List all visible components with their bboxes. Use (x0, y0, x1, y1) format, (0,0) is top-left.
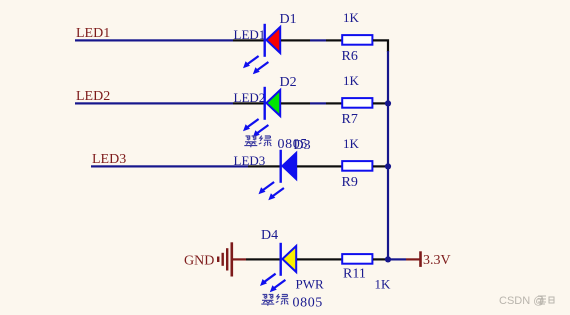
svg-text:LED1: LED1 (76, 26, 110, 41)
resistor R11 (342, 254, 372, 264)
svg-text:1K: 1K (343, 73, 360, 88)
wire to power port (389, 258, 406, 260)
comment 翠绿 (glyph approximations) (244, 136, 257, 147)
resistor R7 (342, 98, 372, 108)
LED D2 emission arrow 2 (253, 125, 269, 137)
LED D4 emission arrow 1 (260, 274, 276, 286)
wire net LED2 (75, 102, 233, 104)
svg-text:GND: GND (184, 254, 214, 269)
svg-text:1K: 1K (375, 277, 392, 292)
LED D3 emission arrow 2 (268, 188, 284, 200)
power port 3.3V bar (419, 251, 422, 267)
svg-text:R9: R9 (342, 175, 358, 190)
svg-text:R11: R11 (343, 267, 366, 282)
vertical bus wire (387, 51, 389, 260)
resistor R6 pin 2 wire + corner (373, 40, 388, 52)
LED D2 pin 2 wire (281, 102, 310, 104)
svg-text:0805: 0805 (293, 295, 323, 310)
LED D4 emission arrow 2 (270, 280, 286, 292)
svg-text:LED3: LED3 (234, 153, 266, 168)
wire net LED1 (75, 39, 233, 41)
LED D1 cathode bar (264, 24, 266, 57)
LED D4 triangle (282, 246, 296, 272)
ground symbol bars (217, 242, 233, 276)
LED D1 emission arrow 1 (243, 56, 259, 68)
ground stub wire (red) (233, 258, 246, 260)
LED D3 pin 1 wire (248, 165, 281, 167)
LED D2 cathode bar (264, 87, 266, 120)
svg-text:R7: R7 (342, 112, 358, 127)
svg-text:LED1: LED1 (234, 27, 266, 42)
resistor R9 pin 2 wire (373, 165, 388, 167)
wire (310, 102, 326, 104)
junction node (R11 / bus / 3.3V) (385, 256, 391, 262)
LED D4 cathode bar (280, 243, 282, 276)
junction node (R9 / bus) (385, 163, 391, 169)
svg-text:R6: R6 (342, 49, 358, 64)
comment 翠绿 (glyph approximations, D4) (261, 295, 274, 306)
LED D3 cathode bar (280, 150, 282, 183)
LED D1 triangle (266, 27, 280, 53)
LED D2 pin 1 wire (233, 102, 265, 104)
LED D4 pin 2 wire (297, 258, 342, 260)
svg-text:D1: D1 (280, 12, 297, 27)
LED D3 pin 2 wire (297, 165, 342, 167)
LED D4 pin 1 wire (246, 258, 281, 260)
resistor R6 (342, 35, 372, 45)
LED D1 pin 2 wire (281, 39, 310, 41)
resistor R11 pin 2 wire (373, 258, 388, 260)
resistor R6 pin 1 wire (326, 39, 342, 41)
wire (310, 39, 326, 41)
power port stub (red) (406, 258, 420, 260)
LED D2 emission arrow 1 (243, 119, 259, 131)
resistor R7 pin 2 wire (373, 102, 388, 104)
svg-text:D4: D4 (261, 228, 278, 243)
svg-text:LED3: LED3 (92, 152, 126, 167)
svg-text:PWR: PWR (296, 277, 325, 292)
resistor R7 pin 1 wire (326, 102, 342, 104)
svg-text:D2: D2 (280, 75, 297, 90)
LED D3 triangle (282, 153, 296, 179)
wire net LED3 (91, 165, 248, 167)
svg-text:3.3V: 3.3V (423, 253, 451, 268)
LED D1 emission arrow 2 (253, 62, 269, 74)
LED D3 emission arrow 1 (259, 182, 275, 194)
junction node (R7 / bus) (385, 100, 391, 106)
svg-text:1K: 1K (343, 10, 360, 25)
svg-text:0805: 0805 (278, 137, 308, 152)
svg-text:LED2: LED2 (234, 90, 266, 105)
svg-text:CSDN @: CSDN @ (499, 295, 544, 307)
resistor R9 (342, 161, 372, 171)
svg-text:LED2: LED2 (76, 89, 110, 104)
svg-text:1K: 1K (343, 136, 360, 151)
LED D1 pin 1 wire (233, 39, 265, 41)
LED D2 triangle (266, 90, 280, 116)
